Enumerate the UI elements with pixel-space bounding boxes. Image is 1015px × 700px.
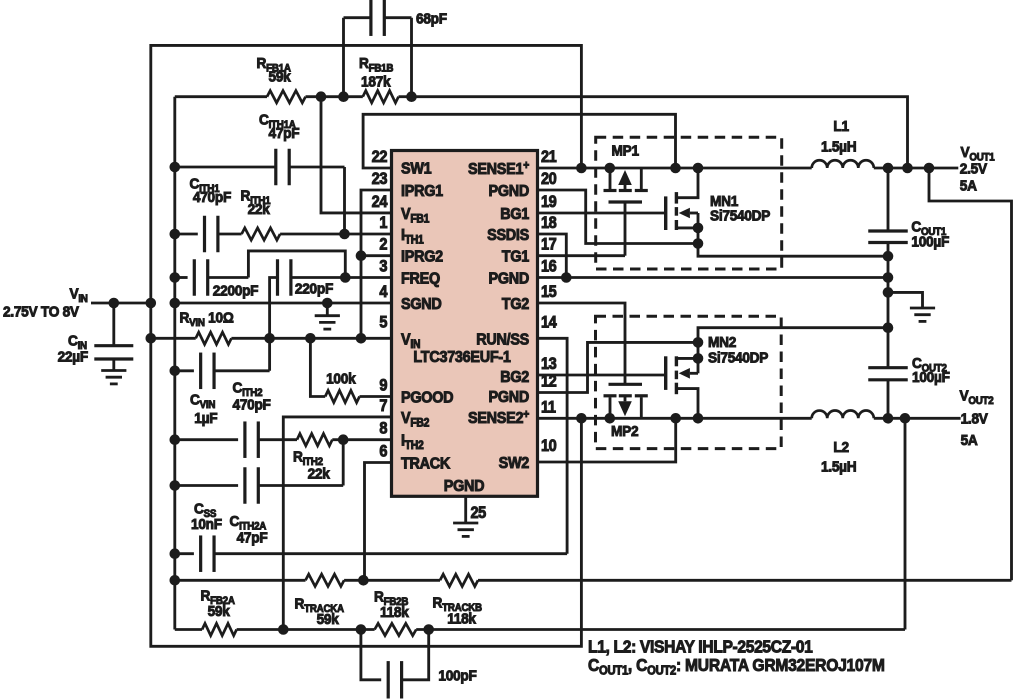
svg-text:7: 7 [379,397,387,415]
svg-text:19: 19 [541,193,556,211]
svg-text:118k: 118k [447,611,477,628]
svg-text:20: 20 [541,170,556,188]
svg-text:6: 6 [379,443,388,461]
svg-text:Si7540DP: Si7540DP [708,350,769,367]
svg-text:1.5µH: 1.5µH [821,459,856,476]
svg-text:2.5V: 2.5V [960,161,988,178]
svg-text:470pF: 470pF [193,189,232,206]
svg-text:25: 25 [471,504,487,522]
svg-text:PGOOD: PGOOD [401,389,454,407]
svg-text:FREQ: FREQ [401,270,440,288]
svg-text:RVIN 10Ω: RVIN 10Ω [180,310,234,329]
svg-text:RUN/SS: RUN/SS [476,331,529,349]
svg-text:1µF: 1µF [194,410,217,427]
svg-text:2200pF: 2200pF [213,283,259,300]
svg-text:SSDIS: SSDIS [487,226,529,244]
svg-text:SENSE2+: SENSE2+ [468,409,529,428]
svg-text:14: 14 [541,314,557,332]
svg-text:TG1: TG1 [502,248,530,266]
svg-text:47pF: 47pF [269,125,300,142]
svg-text:220pF: 220pF [295,281,334,298]
svg-text:18: 18 [541,214,557,232]
svg-text:59k: 59k [208,603,231,620]
svg-text:MP2: MP2 [611,423,639,440]
svg-text:23: 23 [372,170,388,188]
svg-text:12: 12 [541,373,556,391]
svg-text:15: 15 [541,283,557,301]
svg-text:2: 2 [379,236,387,254]
svg-text:100pF: 100pF [438,668,477,685]
svg-text:Si7540DP: Si7540DP [710,208,771,225]
svg-text:COUT1, COUT2: MURATA GRM32EROJ: COUT1, COUT2: MURATA GRM32EROJ107M [588,655,885,677]
svg-text:PGND: PGND [444,477,485,495]
svg-text:10: 10 [541,437,556,455]
svg-text:47pF: 47pF [237,530,268,547]
svg-text:TG2: TG2 [502,295,529,313]
svg-text:SW2: SW2 [499,454,529,472]
svg-text:PGND: PGND [488,388,529,406]
svg-text:LTC3736EUF-1: LTC3736EUF-1 [413,348,511,366]
svg-text:22: 22 [372,148,387,166]
svg-text:100µF: 100µF [912,369,950,386]
svg-text:59k: 59k [269,69,292,86]
svg-text:24: 24 [372,193,388,211]
svg-text:PGND: PGND [488,270,529,288]
svg-text:11: 11 [541,399,556,417]
svg-text:5A: 5A [960,178,978,195]
svg-text:21: 21 [541,148,557,166]
svg-text:118k: 118k [380,604,410,621]
svg-text:L1, L2: VISHAY IHLP-2525CZ-01: L1, L2: VISHAY IHLP-2525CZ-01 [588,637,813,657]
svg-text:17: 17 [541,236,556,254]
svg-text:PGND: PGND [488,182,529,200]
svg-text:3: 3 [379,258,388,276]
svg-text:IPRG1: IPRG1 [401,182,444,200]
svg-text:16: 16 [541,258,557,276]
svg-text:187k: 187k [361,74,391,91]
svg-text:BG2: BG2 [500,368,529,386]
svg-text:68pF: 68pF [416,11,447,28]
svg-text:22k: 22k [308,466,331,483]
svg-text:13: 13 [541,355,557,373]
svg-text:22µF: 22µF [58,349,89,366]
svg-text:9: 9 [379,377,387,395]
svg-text:SW1: SW1 [401,160,432,178]
svg-text:5: 5 [379,314,388,332]
svg-text:22k: 22k [248,201,271,218]
svg-text:10nF: 10nF [191,516,222,533]
svg-text:SENSE1+: SENSE1+ [468,160,529,179]
svg-text:470pF: 470pF [233,397,272,414]
svg-text:5A: 5A [961,432,979,449]
svg-text:100µF: 100µF [911,234,949,251]
svg-text:SGND: SGND [401,295,442,313]
svg-text:MP1: MP1 [612,143,640,160]
svg-text:BG1: BG1 [500,205,530,223]
svg-text:1: 1 [379,214,388,232]
svg-text:4: 4 [379,283,388,301]
svg-text:59k: 59k [317,611,340,628]
svg-text:IPRG2: IPRG2 [401,248,443,266]
svg-text:1.5µH: 1.5µH [821,139,856,156]
svg-text:100k: 100k [326,371,356,388]
svg-text:1.8V: 1.8V [961,411,989,428]
svg-text:L1: L1 [833,118,849,135]
svg-text:MN2: MN2 [708,335,736,352]
svg-text:TRACK: TRACK [401,455,450,473]
svg-text:2.75V TO 8V: 2.75V TO 8V [3,304,79,321]
svg-text:8: 8 [379,420,388,438]
svg-text:L2: L2 [833,439,849,456]
